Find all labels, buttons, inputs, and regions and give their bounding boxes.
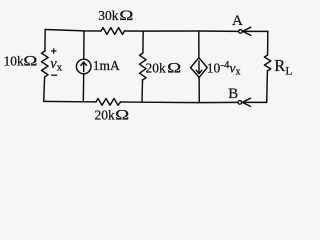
current source I1 arrow up <box>83 62 85 71</box>
wire bottom-left segment <box>44 100 96 103</box>
svg-text:B: B <box>228 86 238 102</box>
svg-text:Ω: Ω <box>167 60 181 76</box>
resistor 20k middle zigzag <box>140 53 147 80</box>
wire dependent source branch lower <box>198 78 200 103</box>
svg-text:Ω: Ω <box>119 7 133 23</box>
current source I1 circle <box>76 59 91 74</box>
label - for vx <box>51 74 57 76</box>
wire right edge upper <box>267 31 269 55</box>
wire bottom-right to B arrow <box>242 101 266 103</box>
terminal arrow at A <box>243 27 251 35</box>
wire top-left segment <box>45 30 101 32</box>
label + for vx <box>51 48 57 54</box>
svg-text:A: A <box>232 13 243 29</box>
wire 1mA branch upper <box>83 31 85 59</box>
svg-text:Ω: Ω <box>23 53 37 69</box>
terminal node A circle <box>239 30 243 34</box>
wire 20k middle branch upper <box>142 31 144 53</box>
resistor RL zigzag <box>264 55 270 71</box>
resistor 30k top zigzag <box>101 28 125 35</box>
wire 20k middle branch lower <box>141 80 144 102</box>
wire 1mA branch lower <box>82 74 84 102</box>
wire left edge lower <box>43 77 46 101</box>
svg-text:1mA: 1mA <box>93 58 120 73</box>
wire from A arrow to right edge <box>243 30 268 32</box>
svg-text:10k: 10k <box>4 54 25 69</box>
wire left edge upper <box>44 30 46 52</box>
wire bottom to node B <box>121 101 239 104</box>
dependent source arrow down <box>198 61 200 73</box>
resistor 20k bottom zigzag <box>96 99 121 106</box>
svg-text:30k: 30k <box>98 8 119 23</box>
resistor 10k left zigzag <box>42 51 49 77</box>
svg-text:20k: 20k <box>95 108 116 123</box>
wire right edge lower <box>266 71 269 103</box>
terminal node B circle <box>238 101 242 105</box>
dependent source diamond <box>191 58 208 78</box>
svg-text:Ω: Ω <box>115 107 129 123</box>
wire top-right segment to node A <box>125 30 239 32</box>
terminal arrow at B <box>242 98 250 106</box>
svg-text:20k: 20k <box>146 61 167 76</box>
wire dependent source branch upper <box>198 31 200 58</box>
